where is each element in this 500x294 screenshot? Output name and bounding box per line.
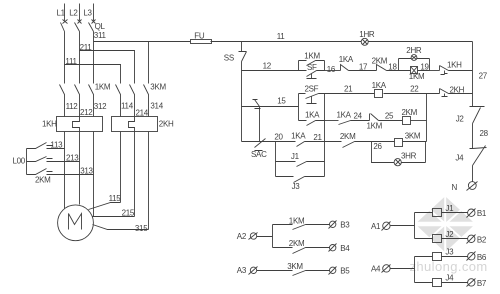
terminal B4 (329, 244, 351, 254)
svg-text:1KM: 1KM (95, 83, 111, 92)
wire column 3 below 1KH to motor (93, 132, 95, 217)
svg-text:2KM: 2KM (340, 132, 356, 141)
svg-text:11: 11 (277, 32, 286, 41)
node 12 (263, 62, 272, 71)
contactor 2KM label (35, 176, 51, 185)
svg-text:A3: A3 (237, 266, 247, 275)
svg-text:311: 311 (94, 31, 107, 40)
relay coil 1KA (372, 81, 387, 98)
node 21 upper (344, 85, 353, 94)
terminal A1 (371, 222, 391, 232)
svg-text:1KM: 1KM (304, 51, 320, 60)
wire 12 (242, 70, 299, 72)
watermark logo (415, 196, 475, 252)
contactor 2KM brake contact row 3 (27, 169, 94, 175)
watermark text (410, 259, 488, 274)
svg-text:113: 113 (50, 140, 63, 149)
contact 1KA in block (299, 110, 325, 125)
svg-text:115: 115 (109, 194, 122, 203)
thermal relay 1KH heater element (73, 117, 80, 132)
svg-text:J3: J3 (292, 182, 301, 191)
node 26 (373, 142, 382, 151)
wire 21 to 1KA coil (325, 93, 375, 95)
wire column 6 below 2KH (148, 132, 150, 230)
contact 1KM to B3 (273, 216, 330, 229)
node 27 (479, 71, 488, 80)
terminal N (452, 182, 478, 193)
svg-text:212: 212 (80, 108, 93, 117)
svg-text:17: 17 (359, 63, 368, 72)
node 314 (150, 101, 163, 110)
node 113 (50, 140, 63, 149)
contactor 3KM label (150, 83, 166, 92)
svg-text:18: 18 (388, 63, 397, 72)
svg-text:3KM: 3KM (287, 262, 303, 271)
svg-text:B5: B5 (340, 267, 350, 276)
breaker QL pole 3 (89, 20, 96, 84)
terminal A3 (237, 266, 258, 275)
svg-text:J2: J2 (445, 230, 454, 239)
relay J3 box to B6 (415, 247, 468, 260)
svg-text:SAC: SAC (251, 150, 267, 159)
wire 11 top control line (211, 41, 473, 43)
contactor 3KM main contact pole 1 (116, 85, 121, 117)
motor M circle (58, 205, 94, 241)
push button SF (299, 63, 325, 78)
motor M letter (69, 214, 82, 230)
node L2 (69, 9, 78, 18)
node 24 (354, 111, 363, 120)
svg-text:L2: L2 (69, 9, 78, 18)
relay J2 box to B2 (415, 230, 468, 243)
wire 311 to 3KM column (148, 42, 150, 84)
breaker QL pole 1 (61, 20, 68, 84)
terminal A4 (371, 265, 391, 274)
wire column 2 below 1KH to motor (79, 132, 81, 205)
svg-text:21: 21 (313, 133, 322, 142)
node L1 (57, 9, 66, 18)
svg-text:28: 28 (480, 129, 489, 138)
svg-text:FU: FU (194, 32, 205, 41)
indicator 1KM square lamp (399, 67, 430, 82)
svg-text:3KM: 3KM (150, 83, 166, 92)
contactor 2KM brake contact row 2 (27, 157, 80, 162)
svg-text:QL: QL (95, 22, 106, 31)
node 313 (80, 167, 93, 176)
svg-text:J3: J3 (445, 247, 454, 256)
svg-text:22: 22 (410, 84, 419, 93)
junction bus x426 (426, 94, 428, 142)
wire 22 (384, 93, 440, 95)
contact 1KA on line 20 (291, 132, 324, 147)
node 214 (136, 108, 149, 117)
svg-text:315: 315 (135, 224, 148, 233)
svg-text:B1: B1 (477, 209, 487, 218)
node L3 (83, 9, 92, 18)
node 15 (277, 97, 286, 106)
svg-text:J1: J1 (291, 152, 300, 161)
wire 16 (325, 70, 341, 72)
node 315 (135, 224, 148, 233)
contact 1KA on line 12 (339, 55, 377, 71)
svg-text:16: 16 (327, 65, 336, 74)
svg-text:24: 24 (354, 111, 363, 120)
node 20 (274, 132, 283, 141)
node 16 (327, 65, 336, 74)
wire column 4 below 2KH (120, 132, 122, 203)
lamp block stubs (399, 59, 430, 71)
node 25 (385, 112, 394, 121)
node 212 (80, 108, 93, 117)
node 18 (388, 63, 397, 72)
svg-text:A4: A4 (371, 265, 381, 274)
wire column 1 below 1KH to motor (64, 132, 66, 209)
break contact 1KM on line 24 (367, 114, 403, 131)
wire A1 junction (391, 213, 415, 239)
wire L1 incoming (64, 4, 66, 21)
svg-text:2SF: 2SF (305, 85, 319, 94)
terminal B2 (467, 235, 487, 245)
svg-text:A1: A1 (371, 222, 381, 231)
contact J2 on right rail (456, 107, 485, 149)
svg-text:27: 27 (479, 71, 488, 80)
svg-text:25: 25 (385, 112, 394, 121)
terminal B1 (467, 209, 487, 219)
contact J4 on right rail (455, 146, 486, 182)
fuse FU (191, 32, 212, 44)
wire L2 incoming (79, 4, 81, 21)
svg-text:B2: B2 (477, 235, 487, 244)
svg-text:B7: B7 (477, 279, 487, 288)
svg-text:1KA: 1KA (291, 132, 306, 141)
thermal contact 1KH (440, 61, 473, 75)
wire 215 to motor (93, 216, 135, 218)
node 17 (359, 63, 368, 72)
svg-text:314: 314 (150, 101, 163, 110)
contact 2KM on line 12 (372, 56, 399, 70)
relay coil 2KM (402, 108, 427, 125)
wire 20 (242, 141, 296, 143)
svg-text:1KA: 1KA (339, 55, 354, 64)
thermal contact 2KH (440, 86, 473, 97)
contactor 1KM main contact pole 1 (60, 85, 65, 117)
node L00 (13, 157, 26, 166)
svg-text:20: 20 (274, 132, 283, 141)
lamp 2HR (399, 46, 430, 60)
thermal relay 1KH box (57, 117, 103, 132)
svg-text:B3: B3 (340, 221, 350, 230)
contact 3KM to B5 (257, 262, 330, 276)
svg-text:3KM: 3KM (405, 132, 421, 141)
svg-text:26: 26 (373, 142, 382, 151)
contact 1KA on line 24 (337, 110, 370, 124)
contactor 2KM brake contact bus (26, 149, 28, 175)
svg-text:1KM: 1KM (289, 216, 305, 225)
contactor 1KM main contact pole 2 (75, 85, 80, 117)
svg-text:112: 112 (66, 102, 79, 111)
svg-text:21: 21 (344, 85, 353, 94)
wire A4 junction (391, 257, 415, 283)
wire 24 line from bus (325, 120, 339, 122)
svg-text:312: 312 (94, 102, 107, 111)
svg-text:J4: J4 (445, 274, 454, 283)
svg-text:J4: J4 (455, 154, 464, 163)
svg-text:L3: L3 (83, 9, 92, 18)
terminal B5 (329, 267, 351, 276)
wire L3 incoming (93, 4, 95, 21)
node 112 (66, 102, 79, 111)
parallel block 2SF / 1KA stubs (298, 94, 300, 121)
wire A2 junction (257, 225, 273, 248)
selector switch SAC (251, 100, 267, 160)
parallel branch J1 J3 left bus (275, 142, 277, 177)
breaker QL label (95, 22, 106, 31)
wire column 5 below 2KH (134, 132, 136, 217)
node 114 (121, 101, 134, 110)
push button SS on left rail (224, 42, 247, 142)
svg-text:SS: SS (224, 54, 234, 63)
node 19 (420, 62, 429, 71)
thermal relay 2KH box (112, 117, 158, 132)
thermal relay 2KH heater element (129, 117, 135, 132)
svg-text:1KH: 1KH (447, 61, 462, 70)
node 11 (277, 32, 286, 41)
svg-text:2HR: 2HR (406, 46, 422, 55)
svg-text:15: 15 (277, 97, 286, 106)
right rail top segment (472, 42, 474, 107)
thermal relay 2KH label (159, 120, 174, 129)
node 312 (94, 102, 107, 111)
lamp 3HR branch (372, 142, 426, 166)
contact J1 (276, 152, 325, 167)
wire 311 horizontal to control circuit (94, 41, 191, 43)
contact 2KM on line 21 (325, 132, 395, 147)
node 115 (109, 194, 122, 203)
svg-text:1KA: 1KA (305, 110, 320, 119)
svg-text:3HR: 3HR (401, 151, 417, 160)
node 213 (66, 154, 79, 163)
contact 1KM auxiliary (seal-in) (299, 51, 325, 65)
relay J1 box to B1 (415, 204, 468, 217)
node 311 (94, 31, 107, 40)
svg-text:2KH: 2KH (159, 120, 174, 129)
wire 19 (430, 70, 440, 72)
contactor 1KM label (95, 83, 111, 92)
node 211 (80, 43, 93, 52)
svg-text:1KM: 1KM (409, 72, 425, 81)
node 28 (480, 129, 489, 138)
parallel block 1KM / SF stubs (299, 61, 325, 71)
svg-text:2KM: 2KM (402, 108, 418, 117)
lamp 1HR (359, 30, 375, 45)
contactor 2KM brake contact row 1 (27, 143, 65, 149)
contactor 3KM main contact pole 2 (130, 85, 135, 117)
terminal B3 (329, 221, 351, 230)
push button 2SF (299, 85, 325, 104)
node 215 (122, 209, 135, 218)
svg-text:1KM: 1KM (367, 122, 383, 131)
svg-text:12: 12 (263, 62, 272, 71)
terminal A2 (237, 232, 258, 241)
wire 115 to motor (89, 203, 121, 210)
svg-text:B6: B6 (477, 253, 487, 262)
vertical bus net 21 (324, 94, 326, 177)
svg-text:2KM: 2KM (372, 56, 388, 65)
watermark logo white star (413, 195, 478, 253)
contact J3 (276, 177, 325, 192)
relay coil 3KM (395, 132, 427, 147)
svg-text:1HR: 1HR (359, 30, 375, 39)
svg-text:1KA: 1KA (337, 110, 352, 119)
wire 15 (242, 106, 299, 108)
thermal relay 1KH label (42, 120, 57, 129)
svg-text:1KH: 1KH (42, 120, 57, 129)
node 21 lower (313, 133, 322, 142)
svg-text:A2: A2 (237, 232, 247, 241)
svg-text:N: N (452, 183, 458, 192)
wire 211 branch (80, 51, 135, 84)
svg-text:J2: J2 (456, 114, 465, 123)
node 111 (65, 57, 77, 66)
svg-text:2KM: 2KM (289, 239, 305, 248)
contactor 3KM main contact pole 3 (144, 85, 149, 117)
node 22 (410, 84, 419, 93)
wire 111 branch (65, 65, 121, 84)
svg-text:19: 19 (420, 62, 429, 71)
svg-text:J1: J1 (445, 204, 454, 213)
terminal B6 (467, 252, 487, 262)
contactor 1KM main contact pole 3 (89, 85, 94, 117)
contact 2KM to B4 (273, 239, 330, 253)
breaker QL pole 2 (75, 20, 82, 84)
svg-text:114: 114 (121, 101, 134, 110)
terminal B7 (467, 279, 487, 288)
svg-text:L00: L00 (13, 157, 26, 166)
relay J4 box to B7 (415, 274, 468, 287)
svg-text:zhulong.com: zhulong.com (410, 259, 488, 274)
svg-text:B4: B4 (340, 244, 350, 253)
svg-text:2KM: 2KM (35, 176, 51, 185)
svg-text:1KA: 1KA (372, 81, 387, 90)
wire 315 to motor (93, 225, 149, 230)
